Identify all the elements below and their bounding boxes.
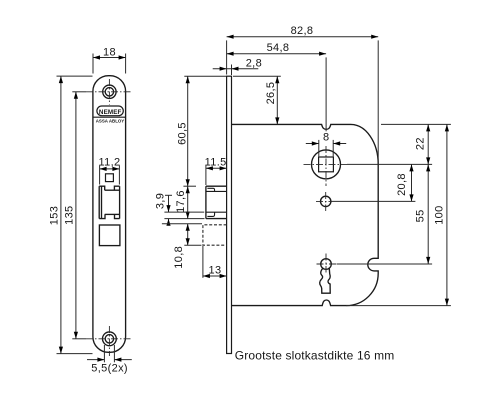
svg-text:135: 135 [63,205,75,224]
svg-text:153: 153 [48,206,60,225]
svg-text:11.5: 11.5 [205,156,227,168]
svg-text:60,5: 60,5 [177,122,189,145]
svg-text:5,5(2x): 5,5(2x) [91,363,128,375]
svg-text:22: 22 [415,137,427,150]
svg-text:26,5: 26,5 [265,82,277,105]
svg-text:8: 8 [323,131,329,143]
svg-text:54,8: 54,8 [267,42,290,54]
svg-text:82,8: 82,8 [291,25,314,37]
svg-text:55: 55 [415,209,427,222]
svg-text:100: 100 [433,205,445,224]
svg-text:13: 13 [209,265,222,277]
svg-text:NEMEF: NEMEF [99,109,122,116]
svg-text:20,8: 20,8 [396,173,408,196]
svg-text:11,2: 11,2 [99,156,121,168]
svg-text:18: 18 [103,46,116,58]
svg-text:17,6: 17,6 [175,190,187,213]
svg-text:2,8: 2,8 [246,58,262,70]
svg-text:ASSA ABLOY: ASSA ABLOY [96,118,125,123]
svg-text:Grootste slotkastdikte 16 mm: Grootste slotkastdikte 16 mm [235,348,395,362]
svg-text:10,8: 10,8 [173,246,185,269]
svg-text:3,9: 3,9 [155,193,167,209]
